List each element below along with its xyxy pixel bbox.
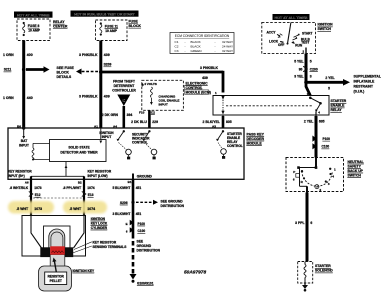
svg-text:394: 394 bbox=[127, 113, 133, 117]
svg-text:439: 439 bbox=[104, 53, 110, 57]
svg-text:C2: C2 bbox=[175, 45, 179, 49]
svg-text:2 DK BLU: 2 DK BLU bbox=[131, 120, 147, 124]
svg-text:32 WAY: 32 WAY bbox=[222, 49, 233, 53]
svg-text:INPUT: INPUT bbox=[102, 135, 112, 139]
svg-text:C100: C100 bbox=[322, 145, 330, 149]
svg-text:HOT AT ALL TIMES: HOT AT ALL TIMES bbox=[17, 13, 50, 17]
svg-text:TEST: TEST bbox=[301, 40, 309, 44]
svg-text:.8 WHT/BLK: .8 WHT/BLK bbox=[9, 186, 28, 190]
svg-text:1 ORN: 1 ORN bbox=[3, 53, 14, 57]
svg-text:-: - bbox=[215, 45, 216, 49]
svg-text:DETERRENT: DETERRENT bbox=[114, 84, 136, 88]
svg-text:451: 451 bbox=[136, 212, 142, 216]
svg-text:24 WAY: 24 WAY bbox=[222, 45, 233, 49]
svg-text:SOLENOID: SOLENOID bbox=[315, 269, 333, 273]
svg-text:3 PNK/BLK: 3 PNK/BLK bbox=[200, 66, 218, 70]
svg-text:(S.I.R.): (S.I.R.) bbox=[354, 90, 365, 94]
svg-text:10 AMP: 10 AMP bbox=[28, 29, 41, 33]
svg-text:ECM CONNECTOR IDENTIFICATION: ECM CONNECTOR IDENTIFICATION bbox=[175, 34, 230, 38]
svg-text:DECODER: DECODER bbox=[247, 137, 265, 141]
svg-text:635: 635 bbox=[319, 120, 325, 124]
svg-text:451: 451 bbox=[136, 186, 142, 190]
svg-text:SOLID STATE: SOLID STATE bbox=[68, 146, 90, 150]
svg-text:5 BLK/WHT: 5 BLK/WHT bbox=[112, 186, 130, 190]
svg-text:-: - bbox=[185, 45, 186, 49]
svg-text:KEY RESISTOR: KEY RESISTOR bbox=[93, 240, 117, 244]
svg-text:DETAILS: DETAILS bbox=[57, 75, 72, 79]
svg-text:-: - bbox=[185, 40, 186, 44]
svg-text:INPUT (LOW): INPUT (LOW) bbox=[88, 174, 108, 178]
svg-text:32 WAY: 32 WAY bbox=[222, 40, 233, 44]
svg-text:E12: E12 bbox=[35, 193, 41, 197]
svg-text:FUSE: FUSE bbox=[129, 20, 139, 24]
svg-text:2 BLK/YEL: 2 BLK/YEL bbox=[203, 120, 220, 124]
svg-text:SEE GROUND: SEE GROUND bbox=[161, 199, 184, 203]
svg-text:P: P bbox=[293, 170, 295, 174]
svg-text:RESISTOR: RESISTOR bbox=[48, 274, 65, 278]
svg-text:C100: C100 bbox=[138, 229, 146, 233]
svg-text:2 YEL: 2 YEL bbox=[304, 120, 313, 124]
svg-text:10 AMP: 10 AMP bbox=[105, 29, 118, 33]
svg-text:5 YEL: 5 YEL bbox=[294, 59, 303, 63]
svg-text:IGNITION KEY: IGNITION KEY bbox=[73, 269, 95, 273]
svg-text:SEE FUSE: SEE FUSE bbox=[57, 66, 75, 70]
svg-text:STARTER: STARTER bbox=[331, 99, 347, 103]
svg-text:INPUT: INPUT bbox=[159, 102, 168, 106]
svg-text:BLACK: BLACK bbox=[191, 40, 202, 44]
svg-text:S206: S206 bbox=[120, 201, 128, 205]
svg-text:3 PNK/BLK: 3 PNK/BLK bbox=[79, 53, 98, 57]
svg-text:-: - bbox=[185, 49, 186, 53]
svg-text:SWITCH: SWITCH bbox=[348, 173, 362, 177]
svg-text:IGNITION: IGNITION bbox=[318, 23, 334, 27]
svg-text:CONTROL: CONTROL bbox=[132, 141, 148, 145]
svg-text:SAFETY: SAFETY bbox=[348, 164, 362, 168]
svg-text:CENTER: CENTER bbox=[53, 25, 68, 29]
svg-text:KEY LOCK: KEY LOCK bbox=[91, 221, 108, 225]
svg-text:RELAY: RELAY bbox=[331, 108, 343, 112]
svg-text:1073: 1073 bbox=[34, 207, 42, 211]
svg-text:OFF: OFF bbox=[278, 43, 284, 47]
svg-text:GROUND: GROUND bbox=[137, 175, 153, 179]
svg-text:FUSE 8: FUSE 8 bbox=[28, 24, 40, 28]
svg-text:CYLINDER: CYLINDER bbox=[91, 226, 108, 230]
svg-text:229: 229 bbox=[152, 120, 158, 124]
svg-text:ACCY: ACCY bbox=[267, 31, 277, 35]
svg-text:MODULE (ECM): MODULE (ECM) bbox=[186, 90, 211, 94]
svg-text:90: 90 bbox=[299, 67, 303, 71]
svg-text:5: 5 bbox=[310, 59, 312, 63]
svg-text:RESTRAINT: RESTRAINT bbox=[354, 85, 374, 89]
svg-text:3 YEL: 3 YEL bbox=[294, 75, 303, 79]
svg-text:BAT: BAT bbox=[21, 139, 28, 143]
svg-text:A6: A6 bbox=[25, 180, 29, 184]
svg-text:FROM THEFT: FROM THEFT bbox=[113, 80, 136, 84]
svg-text:5: 5 bbox=[328, 86, 330, 90]
svg-text:805: 805 bbox=[226, 120, 232, 124]
svg-text:439: 439 bbox=[202, 76, 208, 80]
svg-text:C: C bbox=[122, 98, 125, 103]
svg-text:C1: C1 bbox=[175, 40, 179, 44]
svg-text:NEUTRAL: NEUTRAL bbox=[348, 160, 364, 164]
svg-text:SUPPLEMENTAL: SUPPLEMENTAL bbox=[354, 74, 381, 78]
svg-text:FUSE 11: FUSE 11 bbox=[105, 24, 118, 28]
svg-text:ELECTRONIC: ELECTRONIC bbox=[186, 81, 209, 85]
svg-text:RELAY: RELAY bbox=[53, 20, 65, 24]
svg-text:.5 WHT: .5 WHT bbox=[16, 207, 29, 211]
svg-text:DISTRIBUTION: DISTRIBUTION bbox=[137, 249, 161, 253]
svg-text:BACK UP: BACK UP bbox=[348, 169, 364, 173]
svg-text:3: 3 bbox=[310, 75, 312, 79]
svg-text:4 VOLTS: 4 VOLTS bbox=[144, 82, 157, 86]
svg-text:2 YEL: 2 YEL bbox=[325, 76, 334, 80]
svg-text:400: 400 bbox=[27, 53, 33, 57]
svg-text:MODULE: MODULE bbox=[247, 141, 263, 145]
svg-text:1073: 1073 bbox=[34, 186, 42, 190]
svg-text:B: B bbox=[316, 185, 318, 189]
svg-text:HOT AT ALL TIMES: HOT AT ALL TIMES bbox=[275, 16, 308, 20]
svg-text:439: 439 bbox=[104, 94, 110, 98]
svg-text:B2: B2 bbox=[78, 180, 82, 184]
svg-text:GROUND: GROUND bbox=[137, 244, 152, 248]
svg-text:CONTROL: CONTROL bbox=[227, 144, 243, 148]
svg-text:3 PPL: 3 PPL bbox=[295, 221, 304, 225]
svg-text:2 DK GRN: 2 DK GRN bbox=[102, 113, 119, 117]
svg-text:SWITCH: SWITCH bbox=[318, 27, 332, 31]
svg-text:SENSING TERMINALS: SENSING TERMINALS bbox=[93, 245, 127, 249]
svg-text:G100/G101: G100/G101 bbox=[137, 281, 154, 285]
svg-text:CONTROL: CONTROL bbox=[186, 86, 203, 90]
svg-text:6: 6 bbox=[310, 221, 312, 225]
svg-text:BLOCK: BLOCK bbox=[57, 70, 70, 74]
svg-text:SEE: SEE bbox=[137, 240, 144, 244]
svg-text:PASS KEY: PASS KEY bbox=[247, 132, 265, 136]
svg-text:F10: F10 bbox=[139, 110, 145, 114]
svg-text:.5 WHT: .5 WHT bbox=[69, 207, 82, 211]
svg-text:1 ORN: 1 ORN bbox=[3, 96, 14, 100]
svg-text:.8 PPL/WHT: .8 PPL/WHT bbox=[63, 186, 82, 190]
svg-text:KEY RESISTOR: KEY RESISTOR bbox=[88, 169, 112, 173]
svg-text:INPUT (B+): INPUT (B+) bbox=[8, 174, 25, 178]
svg-text:CONTROLLER: CONTROLLER bbox=[112, 89, 136, 93]
svg-text:P100: P100 bbox=[323, 137, 331, 141]
svg-text:3 PNK/BLK: 3 PNK/BLK bbox=[79, 94, 98, 98]
svg-text:C3: C3 bbox=[175, 49, 179, 53]
svg-text:E: E bbox=[126, 222, 128, 226]
svg-text:BLACK: BLACK bbox=[191, 45, 202, 49]
svg-text:DISTRIBUTION: DISTRIBUTION bbox=[161, 204, 185, 208]
svg-text:50A97978: 50A97978 bbox=[184, 270, 206, 276]
svg-text:BLOCK: BLOCK bbox=[129, 24, 142, 28]
svg-text:ENABLE: ENABLE bbox=[331, 104, 346, 108]
svg-text:P100: P100 bbox=[138, 222, 146, 226]
svg-text:STARTER: STARTER bbox=[315, 264, 331, 268]
svg-text:S209: S209 bbox=[104, 63, 112, 67]
svg-text:-: - bbox=[215, 49, 216, 53]
svg-text:1074: 1074 bbox=[87, 186, 95, 190]
svg-text:S211: S211 bbox=[4, 68, 12, 72]
svg-text:PELLET: PELLET bbox=[50, 279, 62, 283]
svg-text:C200: C200 bbox=[310, 67, 318, 71]
svg-text:E13: E13 bbox=[88, 193, 94, 197]
svg-text:1074: 1074 bbox=[87, 207, 95, 211]
svg-text:GREEN: GREEN bbox=[191, 49, 202, 53]
svg-text:INFLATABLE: INFLATABLE bbox=[354, 80, 376, 84]
svg-text:IGNITION: IGNITION bbox=[91, 217, 106, 221]
svg-text:C2: C2 bbox=[151, 110, 155, 114]
svg-text:HOT IN RUN, BULB TEST OR START: HOT IN RUN, BULB TEST OR START bbox=[74, 12, 135, 16]
svg-text:B1: B1 bbox=[128, 180, 132, 184]
svg-text:3 BLK/WHT: 3 BLK/WHT bbox=[112, 212, 130, 216]
svg-text:440: 440 bbox=[27, 96, 33, 100]
svg-text:-: - bbox=[215, 40, 216, 44]
svg-text:DETECTOR AND TIMER: DETECTOR AND TIMER bbox=[60, 151, 98, 155]
svg-text:KEY RESISTOR: KEY RESISTOR bbox=[8, 169, 32, 173]
svg-text:INPUT: INPUT bbox=[19, 144, 29, 148]
svg-text:START: START bbox=[302, 31, 312, 35]
